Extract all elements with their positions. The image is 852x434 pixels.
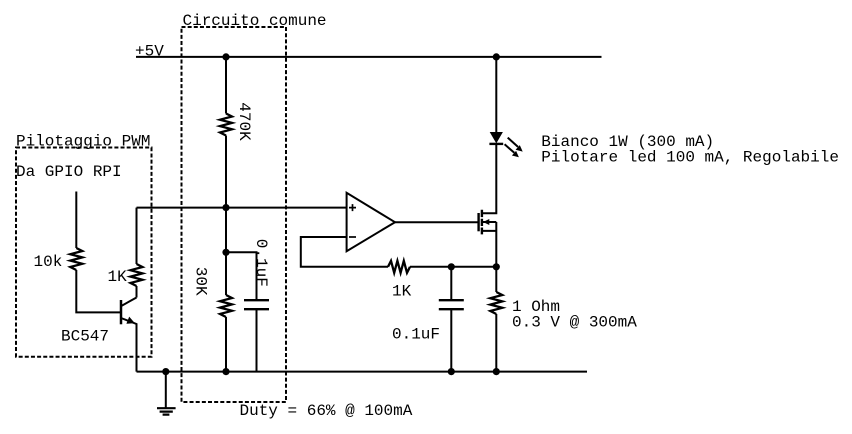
- wire cap 0.1uF branch corner: [226, 252, 257, 300]
- wire 1K bottom to collector: [136, 286, 138, 298]
- resistor R 1K collector: [131, 264, 143, 286]
- resistor R 30K: [220, 295, 232, 317]
- junction node on +5V at LED: [493, 53, 500, 60]
- junction node cap branch: [222, 249, 229, 256]
- wire cap C1 bottom: [256, 309, 258, 371]
- resistor R 1K feedback: [388, 261, 410, 273]
- svg-text:Pilotaggio PWM: Pilotaggio PWM: [16, 133, 150, 151]
- wire feedback to source node: [410, 266, 496, 268]
- svg-text:Pilotare led 100 mA, Regolabil: Pilotare led 100 mA, Regolabile: [541, 148, 839, 166]
- transistor M1 body lead: [483, 221, 496, 223]
- dashed box Circuito comune: [182, 27, 287, 402]
- svg-text:Circuito comune: Circuito comune: [183, 12, 327, 30]
- LED D1 cathode bar: [489, 143, 503, 145]
- transistor Q1 collector lead: [121, 298, 137, 307]
- wire 1K collector branch: [136, 208, 138, 264]
- junction node A: [222, 204, 229, 211]
- wire LED anode from rail: [495, 57, 497, 132]
- capacitor C1 0.1uF plates: [244, 300, 269, 309]
- junction node ground rail left: [162, 368, 169, 375]
- dashed box Pilotaggio PWM: [16, 148, 152, 357]
- svg-text:BC547: BC547: [61, 328, 109, 346]
- wire op-amp output to gate: [395, 221, 478, 223]
- junction node feedback cap: [448, 263, 455, 270]
- ground: [165, 372, 167, 409]
- wire 30K bottom: [225, 317, 227, 372]
- resistor R 10k: [70, 248, 82, 270]
- svg-text:0.1uF: 0.1uF: [252, 239, 270, 287]
- capacitor C2 0.1uF: [450, 267, 452, 300]
- wire GPIO input stub: [75, 192, 77, 249]
- op-amp minus input mark: [349, 236, 356, 238]
- transistor Q1 emitter arrow: [126, 317, 134, 324]
- wire feedback from minus input: [301, 237, 388, 267]
- wire bottom ground rail: [137, 371, 588, 373]
- transistor M1 gate bar: [477, 213, 479, 231]
- svg-text:10k: 10k: [34, 253, 63, 271]
- transistor Q1 emitter lead: [121, 318, 137, 372]
- svg-text:Da GPIO RPI: Da GPIO RPI: [16, 163, 122, 181]
- LED D1 light arrow upper: [508, 138, 518, 147]
- op-amp plus input mark: [349, 204, 356, 211]
- LED D1 light arrow lower: [505, 144, 515, 153]
- wire 10k to base: [76, 270, 121, 312]
- resistor R 1 Ohm: [495, 267, 497, 292]
- transistor M1 drain lead: [482, 144, 496, 213]
- transistor Q1 BC547 base bar: [120, 300, 123, 324]
- wire 470K branch top: [225, 57, 227, 114]
- wire +5V top rail: [136, 56, 602, 58]
- junction node ground rail 30K: [222, 368, 229, 375]
- junction node on +5V at 470K: [222, 53, 229, 60]
- svg-text:1K: 1K: [108, 268, 128, 286]
- op-amp U1 body: [347, 193, 395, 251]
- junction node source: [493, 263, 500, 270]
- transistor M1 channel bars: [481, 210, 483, 235]
- svg-text:0.1uF: 0.1uF: [392, 326, 440, 344]
- transistor M1 source lead: [482, 222, 496, 267]
- junction node ground rail cap2: [448, 368, 455, 375]
- wire node A horizontal to op-amp +: [137, 207, 347, 209]
- svg-text:Duty = 66% @ 100mA: Duty = 66% @ 100mA: [240, 402, 413, 420]
- wire 470K bottom to node chain: [225, 136, 227, 296]
- resistor R 470K: [220, 114, 232, 136]
- svg-text:1K: 1K: [392, 282, 412, 300]
- svg-text:470K: 470K: [235, 102, 253, 141]
- svg-text:30K: 30K: [192, 267, 210, 296]
- svg-text:0.3 V @ 300mA: 0.3 V @ 300mA: [512, 314, 637, 332]
- svg-text:+5V: +5V: [135, 42, 164, 60]
- transistor M1 body arrow: [483, 219, 489, 225]
- LED D1 triangle: [490, 132, 503, 143]
- junction node ground rail 1 Ohm: [493, 368, 500, 375]
